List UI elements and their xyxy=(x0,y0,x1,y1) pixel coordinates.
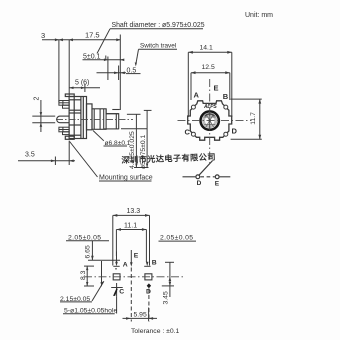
svg-text:ALPS: ALPS xyxy=(203,104,217,110)
side view flange xyxy=(87,104,93,130)
svg-text:3.5: 3.5 xyxy=(25,152,35,159)
dimension 6.65 (vertical) xyxy=(85,241,121,260)
footprint centerline E column xyxy=(130,268,132,322)
svg-text:A: A xyxy=(123,261,128,268)
svg-text:Shaft diameter : ø5.975±0.025: Shaft diameter : ø5.975±0.025 xyxy=(112,22,205,29)
svg-text:B: B xyxy=(223,92,229,101)
svg-text:C: C xyxy=(119,289,124,296)
dimension 14.1 (front view width) xyxy=(188,44,232,117)
note switch travel xyxy=(135,43,177,67)
svg-text:D: D xyxy=(232,127,238,136)
svg-text:2: 2 xyxy=(34,97,41,101)
svg-text:Switch travel: Switch travel xyxy=(140,43,176,50)
side view shaft xyxy=(104,109,120,129)
footprint hole E xyxy=(130,250,139,267)
footprint hole C xyxy=(111,283,124,314)
svg-text:D: D xyxy=(197,180,202,187)
switch schematic dashed link xyxy=(200,176,214,178)
dimension 13.3 (footprint outer) xyxy=(113,208,150,266)
note shaft diameter xyxy=(97,22,205,53)
dimension 11.1 (footprint inner) xyxy=(116,222,146,262)
svg-text:Mounting surface: Mounting surface xyxy=(99,175,153,182)
extension line mounting surface upper xyxy=(68,40,70,96)
switch schematic lever xyxy=(199,161,213,176)
footprint square pad right xyxy=(145,274,152,280)
footprint square pad left xyxy=(113,274,120,280)
side view pin bottom xyxy=(59,127,69,134)
footprint hole B xyxy=(144,260,157,267)
svg-text:E: E xyxy=(134,253,139,260)
svg-text:E: E xyxy=(214,84,219,93)
svg-text:11.1: 11.1 xyxy=(124,222,137,229)
front view body octagon xyxy=(188,101,232,140)
svg-text:B: B xyxy=(152,260,157,267)
dimension 2.05±0.05 right xyxy=(159,235,197,242)
svg-text:C: C xyxy=(185,128,191,137)
dimension 11.7 (front view height) xyxy=(231,99,262,139)
side view support peg xyxy=(57,116,69,123)
svg-text:5.95: 5.95 xyxy=(134,312,147,319)
dimension 17.5 (top) xyxy=(69,31,120,111)
dimension 12.5 (front view inner width) xyxy=(191,64,230,100)
switch schematic wire right xyxy=(220,176,231,178)
dimension 3.45 xyxy=(162,262,174,304)
svg-text:Tolerance : ±0.1: Tolerance : ±0.1 xyxy=(131,328,180,335)
side view pin top xyxy=(59,101,69,109)
dimension 3 (top) xyxy=(41,31,120,41)
svg-text:13.3: 13.3 xyxy=(127,208,141,215)
centerline side view xyxy=(56,118,133,120)
switch schematic contact D xyxy=(196,175,200,179)
svg-text:3.45: 3.45 xyxy=(163,291,170,304)
dimension 3.5 (peg to mounting surface) xyxy=(18,141,75,165)
svg-text:A: A xyxy=(194,91,200,100)
dimension 5±0.1 (bushing length) xyxy=(83,54,125,81)
extension line pins tip xyxy=(58,40,60,102)
front view shaft circle xyxy=(201,111,219,129)
dimension 0.5 (switch travel) xyxy=(97,66,141,81)
svg-text:5 (6): 5 (6) xyxy=(75,80,89,87)
dimension 5.95 xyxy=(123,308,158,322)
switch schematic wire left xyxy=(183,176,196,178)
svg-text:14.1: 14.1 xyxy=(200,44,213,51)
side view body xyxy=(65,94,86,139)
svg-text:11.7: 11.7 xyxy=(250,112,257,125)
footprint horizontal centerline xyxy=(84,276,184,278)
svg-text:17.5: 17.5 xyxy=(85,31,100,40)
svg-text:8.3: 8.3 xyxy=(80,270,87,280)
footprint left edge line xyxy=(101,261,103,286)
footprint hole D xyxy=(146,283,151,321)
dimension ø5.975±0.1 (vertical, rotated) xyxy=(134,110,152,169)
svg-text:12.5: 12.5 xyxy=(202,64,215,71)
dimension 8.3 (vertical) xyxy=(80,266,94,286)
svg-text:3: 3 xyxy=(41,31,45,40)
front view crosshair xyxy=(178,79,252,163)
switch schematic contact E xyxy=(215,175,219,179)
footprint hole A xyxy=(113,252,128,270)
dimension 4.475±0.025 (vertical, rotated) xyxy=(121,114,147,169)
dimension 2 (peg dia) xyxy=(32,97,55,133)
svg-text:Unit: mm: Unit: mm xyxy=(245,12,273,19)
note mounting surface xyxy=(70,142,153,182)
note 5-ø1.05±0.05 hole xyxy=(63,308,117,315)
side view threaded bushing xyxy=(92,109,106,130)
dimension 2.05±0.05 left xyxy=(66,235,109,242)
dimension 5 (6) pin span xyxy=(70,80,101,93)
dimension ø6.8±0.1 (bushing) xyxy=(93,131,131,147)
svg-text:E: E xyxy=(215,180,220,187)
svg-text:6.65: 6.65 xyxy=(85,245,92,258)
dimension 2.15±0.05 xyxy=(60,281,104,303)
